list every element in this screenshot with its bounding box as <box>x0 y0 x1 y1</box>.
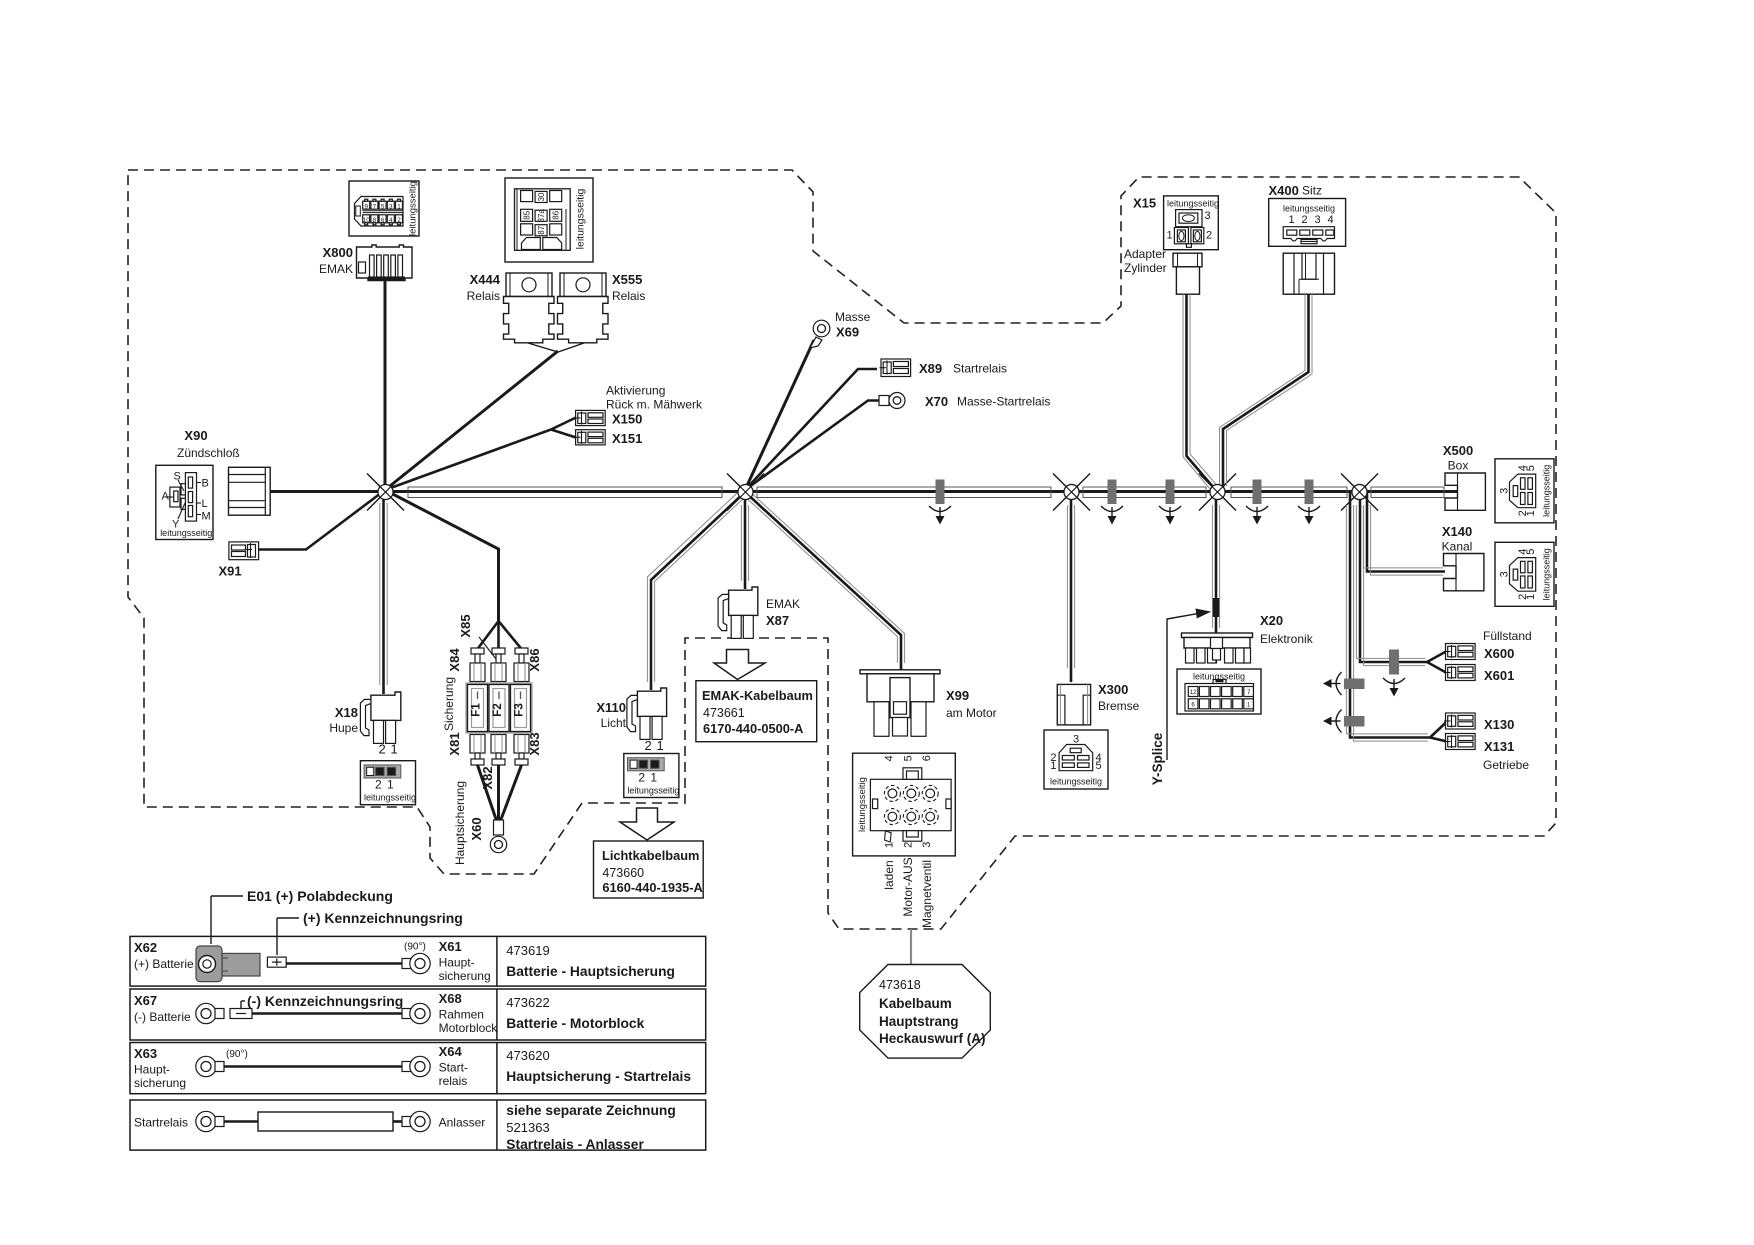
svg-text:8: 8 <box>373 217 377 224</box>
clamp on bundle upper (horizontal) <box>1323 672 1365 695</box>
svg-text:Aktivierung: Aktivierung <box>606 384 665 398</box>
X800 pin 10 <box>363 215 371 225</box>
svg-text:(+) Batterie: (+) Batterie <box>134 957 194 971</box>
bus sheath segment 5 <box>1371 487 1444 498</box>
svg-text:X400: X400 <box>1269 183 1299 198</box>
svg-text:X82: X82 <box>480 766 495 789</box>
X99 6-pin pin box <box>853 753 956 856</box>
svg-text:(-) Batterie: (-) Batterie <box>134 1010 191 1024</box>
connector X15 body <box>1173 253 1202 294</box>
svg-text:leitungsseitig: leitungsseitig <box>1167 199 1219 209</box>
wire fuse fork to X86 <box>499 621 522 649</box>
svg-text:X91: X91 <box>219 564 242 579</box>
svg-text:Zündschloß: Zündschloß <box>177 446 240 460</box>
svg-text:3: 3 <box>389 203 393 210</box>
svg-text:(90°): (90°) <box>404 942 426 953</box>
X99 pin 2 <box>903 809 919 825</box>
wire row4 right <box>393 1120 405 1123</box>
svg-text:87: 87 <box>537 225 546 234</box>
wire fork to X151 <box>551 430 576 438</box>
svg-text:2: 2 <box>379 742 386 757</box>
cable junction5 to X140 (sheathed) <box>1363 492 1445 575</box>
svg-text:3: 3 <box>1205 210 1211 222</box>
relay X555 body <box>558 273 609 343</box>
terminal X82 <box>491 735 506 766</box>
X800 pin 4 <box>387 215 394 225</box>
svg-text:1: 1 <box>657 738 664 753</box>
ring terminal X68 <box>402 1003 430 1023</box>
svg-text:X86: X86 <box>527 648 542 671</box>
svg-text:leitungsseitig: leitungsseitig <box>1283 204 1335 214</box>
svg-text:521363: 521363 <box>506 1120 549 1135</box>
svg-text:473619: 473619 <box>506 943 549 958</box>
svg-text:Hauptsicherung - Startrelais: Hauptsicherung - Startrelais <box>506 1069 691 1084</box>
svg-text:Haupt-: Haupt- <box>134 1063 170 1077</box>
cable junction2 to X110 (sheathed) <box>647 489 747 690</box>
table row 1 frame <box>130 936 706 986</box>
ring terminal X64 <box>402 1056 430 1076</box>
svg-text:X84: X84 <box>447 648 462 672</box>
svg-text:X62: X62 <box>134 940 157 955</box>
svg-text:EMAK-Kabelbaum: EMAK-Kabelbaum <box>702 688 813 703</box>
svg-text:X130: X130 <box>1484 717 1514 732</box>
svg-text:Zylinder: Zylinder <box>1124 261 1167 275</box>
svg-text:30: 30 <box>537 192 546 201</box>
wire main bus center line <box>268 490 1457 493</box>
table row 4 frame <box>130 1100 706 1150</box>
cable clamp on bus at x940 <box>929 480 951 525</box>
wire relay bottoms V joint <box>528 343 584 352</box>
svg-text:1: 1 <box>387 778 394 792</box>
svg-text:X64: X64 <box>439 1044 463 1059</box>
wire junction2 to X69 <box>745 340 814 490</box>
svg-text:5: 5 <box>1096 760 1102 772</box>
svg-text:X151: X151 <box>612 431 642 446</box>
bus sheath segment 1 <box>408 487 722 498</box>
wire row3 <box>224 1065 405 1068</box>
svg-text:X110: X110 <box>596 700 626 715</box>
wire fuse fork to X84 <box>478 621 499 649</box>
X800 pin 2 <box>396 215 403 225</box>
svg-text:3: 3 <box>1073 734 1079 746</box>
ring terminal left row3 <box>196 1056 224 1076</box>
svg-text:4: 4 <box>1328 214 1334 226</box>
svg-text:Startrelais - Anlasser: Startrelais - Anlasser <box>506 1137 644 1152</box>
svg-text:leitungsseitig: leitungsseitig <box>160 528 212 538</box>
svg-text:Masse: Masse <box>835 310 871 324</box>
svg-text:F3: F3 <box>514 703 526 716</box>
svg-text:6: 6 <box>381 217 385 224</box>
wire junction2 to X70 <box>745 401 879 491</box>
svg-text:Kabelbaum: Kabelbaum <box>879 996 952 1011</box>
svg-text:X67: X67 <box>134 993 157 1008</box>
svg-text:X63: X63 <box>134 1046 157 1061</box>
svg-text:L: L <box>202 498 208 510</box>
svg-text:(+) Kennzeichnungsring: (+) Kennzeichnungsring <box>303 910 463 926</box>
X800 pin 1 <box>396 199 403 210</box>
svg-text:Box: Box <box>1448 459 1469 473</box>
ring terminal left row4 <box>196 1111 224 1131</box>
cable junction4 to X20 (sheathed) <box>1212 492 1219 634</box>
svg-text:X600: X600 <box>1484 646 1514 661</box>
bus sheath segment 4 <box>1231 487 1347 498</box>
connector X800 (EMAK comb) <box>357 245 413 281</box>
svg-text:X85: X85 <box>458 614 473 637</box>
svg-text:1: 1 <box>397 203 401 210</box>
svg-text:X69: X69 <box>836 325 859 340</box>
svg-text:87a: 87a <box>537 209 546 223</box>
Y-Splice arrow <box>1167 609 1211 761</box>
cable X400 to junction4 (sheathed) <box>1220 294 1313 488</box>
svg-text:A: A <box>162 491 170 503</box>
svg-text:3: 3 <box>1499 571 1511 577</box>
svg-text:1: 1 <box>1050 760 1056 772</box>
svg-text:Adapter: Adapter <box>1124 247 1166 261</box>
svg-text:leitungsseitig: leitungsseitig <box>1050 777 1102 787</box>
svg-text:X90: X90 <box>184 428 207 443</box>
ring terminal Anlasser <box>402 1111 430 1131</box>
svg-text:X131: X131 <box>1484 739 1514 754</box>
svg-text:S: S <box>174 471 181 483</box>
svg-text:Motorblock: Motorblock <box>439 1021 499 1035</box>
connector X87 (EMAK) <box>718 587 758 638</box>
X800 pin box leitungsseitig label <box>408 181 419 236</box>
ring terminal X60 <box>490 820 506 853</box>
svg-text:1: 1 <box>391 742 398 757</box>
svg-text:X87: X87 <box>766 613 789 628</box>
ring terminal left row2 <box>196 1003 224 1023</box>
X20 pin box <box>1177 669 1261 714</box>
svg-text:leitungsseitig: leitungsseitig <box>575 188 587 249</box>
svg-text:X601: X601 <box>1484 668 1514 683</box>
svg-text:X500: X500 <box>1443 443 1473 458</box>
wire X81 to X60 <box>478 765 498 822</box>
connector X151 <box>574 430 605 445</box>
svg-text:1: 1 <box>1247 702 1251 709</box>
black splice mark on X20 cable <box>1213 598 1219 617</box>
svg-text:leitungsseitig: leitungsseitig <box>1542 465 1552 517</box>
cable clamp on bus at x1112 <box>1101 480 1123 525</box>
svg-text:2: 2 <box>1302 214 1308 226</box>
svg-text:Rück m. Mähwerk: Rück m. Mähwerk <box>606 398 703 412</box>
svg-text:3: 3 <box>921 842 933 848</box>
cable junction5 to X130/X131 (sheathed) <box>1346 492 1430 741</box>
relay pin 87 <box>535 225 547 236</box>
svg-text:Relais: Relais <box>612 289 645 303</box>
relay pin 86 <box>550 209 562 221</box>
svg-text:473661: 473661 <box>703 706 745 720</box>
svg-text:1: 1 <box>1167 230 1173 242</box>
svg-text:12: 12 <box>1190 689 1198 696</box>
svg-text:5: 5 <box>1525 549 1537 555</box>
connector X110 (Licht) <box>627 688 667 739</box>
terminal X84 <box>470 648 485 682</box>
svg-text:X20: X20 <box>1260 613 1283 628</box>
fuse F1 <box>468 685 488 732</box>
connector X130 <box>1444 713 1475 729</box>
X99 pin 4 <box>884 785 900 801</box>
relay pin 30 <box>535 191 547 202</box>
X800 pin 9 <box>363 199 370 210</box>
arrow to EMAK-Kabelbaum <box>714 650 765 680</box>
X99 pin 6 <box>922 785 938 801</box>
svg-text:X99: X99 <box>946 688 969 703</box>
connector X89 <box>880 359 911 377</box>
svg-text:7: 7 <box>373 203 377 210</box>
fuse F3 <box>511 685 531 732</box>
svg-text:3: 3 <box>1315 214 1321 226</box>
svg-text:Sitz: Sitz <box>1302 184 1322 198</box>
cable clamp on bus at x1309 <box>1298 480 1320 525</box>
svg-text:Licht: Licht <box>601 716 627 730</box>
svg-text:2: 2 <box>645 738 652 753</box>
svg-text:X150: X150 <box>612 412 642 427</box>
svg-text:Startrelais: Startrelais <box>134 1116 188 1130</box>
svg-text:Bremse: Bremse <box>1098 699 1140 713</box>
ring terminal X70 <box>879 393 905 409</box>
relay pin 87a <box>535 209 547 223</box>
harness boundary dashed outline <box>128 170 1556 929</box>
svg-text:1: 1 <box>883 842 895 848</box>
svg-text:6: 6 <box>921 755 933 761</box>
X15 pin box <box>1164 196 1219 250</box>
svg-text:X444: X444 <box>470 272 501 287</box>
svg-text:X140: X140 <box>1442 524 1472 539</box>
wire junction1 to relays X444/X555 <box>385 351 558 490</box>
svg-text:leitungsseitig: leitungsseitig <box>1542 548 1552 600</box>
svg-text:(-) Kennzeichnungsring: (-) Kennzeichnungsring <box>247 993 403 1009</box>
svg-text:1: 1 <box>1525 594 1537 600</box>
svg-text:1: 1 <box>1289 214 1295 226</box>
svg-text:5: 5 <box>902 755 914 761</box>
connector X500 (Box) <box>1445 473 1485 510</box>
X99 pin 5 <box>903 785 919 801</box>
EMAK-Kabelbaum box <box>696 681 817 742</box>
connector X18 (Hupe) <box>360 692 400 743</box>
svg-text:Hauptstrang: Hauptstrang <box>879 1014 959 1029</box>
svg-text:relais: relais <box>439 1074 468 1088</box>
svg-text:(90°): (90°) <box>226 1049 248 1060</box>
(+) ring marker row1 <box>267 957 286 967</box>
svg-text:leitungsseitig: leitungsseitig <box>364 793 416 803</box>
svg-text:Anlasser: Anlasser <box>439 1116 486 1130</box>
svg-text:2: 2 <box>902 842 914 848</box>
connector X131 <box>1444 734 1475 750</box>
(-) ring marker row2 <box>230 1009 252 1019</box>
table row 3 frame <box>130 1043 706 1094</box>
svg-text:siehe separate Zeichnung: siehe separate Zeichnung <box>506 1103 675 1118</box>
big arrow to Lichtkabelbaum <box>620 808 674 840</box>
svg-text:EMAK: EMAK <box>766 597 800 611</box>
svg-text:Motor-AUS: Motor-AUS <box>901 857 915 916</box>
svg-text:4: 4 <box>883 755 895 761</box>
svg-text:M: M <box>202 511 211 523</box>
svg-text:laden: laden <box>882 860 896 889</box>
wire junction1 to X800 <box>384 280 387 490</box>
wire X82 to X60 <box>497 765 500 822</box>
X800 pin 6 <box>379 215 386 225</box>
terminal X86 <box>514 648 529 682</box>
Lichtkabelbaum box <box>594 841 704 898</box>
wire fork to X150 <box>551 418 576 430</box>
cable body row4 <box>258 1112 393 1131</box>
svg-text:2: 2 <box>375 778 382 792</box>
wire fork to X600 <box>1427 652 1446 663</box>
wire junction1 to X91 <box>259 490 385 550</box>
cable junction2 to X87 (sheathed) <box>741 492 748 589</box>
wire fork to X601 <box>1427 662 1446 673</box>
svg-text:6170-440-0500-A: 6170-440-0500-A <box>703 721 803 736</box>
terminal X81 <box>470 735 485 766</box>
svg-text:X300: X300 <box>1098 682 1128 697</box>
label (-) Kennzeichnungsring <box>241 993 403 1009</box>
svg-text:sicherung: sicherung <box>439 969 491 983</box>
connector X140 (Kanal) <box>1444 554 1484 591</box>
X20 pin cells row1 <box>1188 687 1253 697</box>
wire row1 <box>286 962 405 965</box>
X800 pin 3 <box>387 199 394 210</box>
svg-text:X555: X555 <box>612 272 642 287</box>
battery clamp E01 <box>196 946 260 982</box>
svg-text:1: 1 <box>650 770 657 784</box>
wire row4 left <box>224 1120 260 1123</box>
label (+) Kennzeichnungsring <box>277 910 463 955</box>
junction node 2 (center star point) <box>727 474 764 511</box>
leader X85 <box>479 637 496 659</box>
X140 pin box (rotated pin5) <box>1495 542 1554 606</box>
table row 2 frame <box>130 989 706 1040</box>
svg-text:10: 10 <box>363 217 371 224</box>
octagon Kabelbaum Hauptstrang Heckauswurf (A) <box>860 965 991 1059</box>
svg-text:Hupe: Hupe <box>329 721 358 735</box>
svg-text:6: 6 <box>1191 702 1195 709</box>
svg-text:X83: X83 <box>527 732 542 755</box>
svg-text:B: B <box>202 478 209 490</box>
X99 pin 3 <box>922 809 938 825</box>
svg-text:1: 1 <box>1525 510 1537 516</box>
X800 pin box <box>349 181 419 236</box>
svg-text:86: 86 <box>552 210 561 219</box>
svg-text:3: 3 <box>1499 488 1511 494</box>
svg-text:X89: X89 <box>919 361 942 376</box>
wire junction1 to X90 <box>270 490 385 493</box>
connector X99 (am Motor) <box>860 670 940 737</box>
svg-text:Füllstand: Füllstand <box>1483 629 1532 643</box>
svg-text:leitungsseitig: leitungsseitig <box>627 785 679 795</box>
cable junction1 to X18 (sheathed) <box>380 492 387 694</box>
wire fork to X130 <box>1430 722 1447 738</box>
svg-text:X68: X68 <box>439 991 462 1006</box>
wire fuse fork to X85 <box>497 621 500 656</box>
svg-text:F2: F2 <box>492 703 504 716</box>
svg-text:X800: X800 <box>323 245 353 260</box>
label E01 (+) Polabdeckung <box>211 888 393 944</box>
svg-text:X70: X70 <box>925 394 948 409</box>
junction node 1 (X90 star point) <box>367 474 404 511</box>
terminal X83 <box>514 735 529 766</box>
X90 pin box (Zündschloß) <box>156 465 213 539</box>
svg-text:Masse-Startrelais: Masse-Startrelais <box>957 395 1050 409</box>
relay X444 body <box>504 273 555 343</box>
svg-text:X60: X60 <box>469 817 484 840</box>
svg-text:X81: X81 <box>447 732 462 755</box>
clamp on bundle lower (horizontal) <box>1323 710 1365 733</box>
svg-text:X61: X61 <box>439 939 462 954</box>
svg-text:Kanal: Kanal <box>1442 540 1473 554</box>
svg-text:leitungsseitig: leitungsseitig <box>408 181 419 236</box>
svg-text:85: 85 <box>523 210 532 219</box>
ring terminal X61 <box>402 953 430 973</box>
X300 pin box <box>1044 730 1108 789</box>
connector X150 <box>574 410 605 425</box>
X800 pin 8 <box>371 215 378 225</box>
svg-text:E01 (+) Polabdeckung: E01 (+) Polabdeckung <box>247 888 393 904</box>
svg-text:473622: 473622 <box>506 995 549 1010</box>
svg-text:473620: 473620 <box>506 1048 549 1063</box>
svg-text:Heckauswurf (A): Heckauswurf (A) <box>879 1031 986 1046</box>
svg-text:Startrelais: Startrelais <box>953 362 1007 376</box>
cable junction3 to X300 (sheathed) <box>1067 492 1074 682</box>
cable junction2 to X99 (sheathed) <box>743 490 905 671</box>
svg-text:2: 2 <box>1206 230 1212 242</box>
wire X83 to X60 <box>500 765 522 822</box>
connector X90 body <box>229 467 271 515</box>
X400 pin box <box>1269 199 1346 247</box>
junction circle overlays <box>378 485 393 500</box>
connector X91 <box>229 542 259 560</box>
svg-text:5: 5 <box>1525 465 1537 471</box>
svg-text:Hauptsicherung: Hauptsicherung <box>453 781 467 865</box>
svg-text:Rahmen: Rahmen <box>439 1008 484 1022</box>
svg-text:9: 9 <box>364 203 368 210</box>
ring terminal X69 (Masse) <box>810 320 830 348</box>
svg-text:2: 2 <box>397 217 401 224</box>
connector X400 body <box>1283 253 1334 294</box>
X800 pin 5 <box>379 199 386 210</box>
relay pin box (X444/X555) <box>505 178 593 262</box>
connector X300 (Bremse) <box>1057 684 1090 725</box>
svg-text:F1: F1 <box>471 703 483 717</box>
wire fork to X131 <box>1430 738 1447 742</box>
gray link line to octagon <box>910 929 912 965</box>
svg-text:Batterie - Motorblock: Batterie - Motorblock <box>506 1016 644 1031</box>
wire junction1 to X150/X151 fork <box>385 430 551 491</box>
svg-text:473660: 473660 <box>602 866 644 880</box>
cable X15 to junction4 (sheathed) <box>1183 294 1217 489</box>
svg-text:4: 4 <box>389 217 393 224</box>
connector X601 <box>1444 665 1475 681</box>
svg-text:sicherung: sicherung <box>134 1076 186 1090</box>
relay pin 85 <box>521 209 533 221</box>
connector X600 <box>1444 644 1475 660</box>
svg-text:6160-440-1935-A: 6160-440-1935-A <box>602 880 702 895</box>
svg-text:Sicherung: Sicherung <box>442 677 456 731</box>
svg-text:Lichtkabelbaum: Lichtkabelbaum <box>602 848 699 863</box>
clamp on X600 cable <box>1383 650 1405 697</box>
wire row2 <box>252 1012 405 1015</box>
svg-text:Elektronik: Elektronik <box>1260 632 1314 646</box>
relay pin box leitungsseitig <box>575 188 587 249</box>
svg-text:Batterie - Hauptsicherung: Batterie - Hauptsicherung <box>506 964 675 979</box>
X99 pin 1 <box>884 809 900 825</box>
cable clamp on bus at x1257 <box>1246 480 1268 525</box>
svg-text:Relais: Relais <box>467 289 500 303</box>
svg-text:Haupt-: Haupt- <box>439 956 475 970</box>
wire junction2 to X89 <box>745 369 877 490</box>
svg-text:473618: 473618 <box>879 978 921 992</box>
svg-text:Start-: Start- <box>439 1061 468 1075</box>
X110 pin box <box>624 754 680 798</box>
